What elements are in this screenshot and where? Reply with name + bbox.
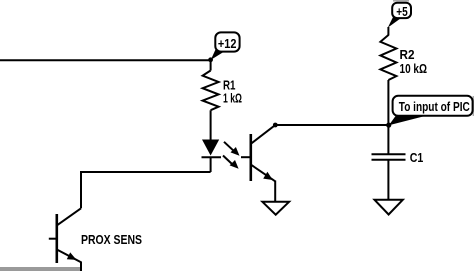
svg-text:1 kΩ: 1 kΩ (223, 92, 242, 106)
svg-text:To input of PIC: To input of PIC (399, 100, 470, 114)
svg-text:R2: R2 (400, 48, 415, 62)
svg-text:PROX SENS: PROX SENS (81, 233, 142, 247)
svg-text:+5: +5 (396, 5, 408, 19)
svg-text:+12: +12 (218, 37, 237, 51)
svg-text:10 kΩ: 10 kΩ (400, 62, 428, 76)
svg-text:R1: R1 (223, 79, 236, 93)
svg-text:C1: C1 (410, 151, 424, 165)
